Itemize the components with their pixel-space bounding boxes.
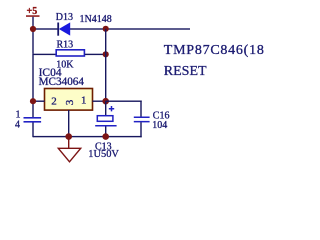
op-amp/IC U IC04 body MC34064	[45, 89, 93, 111]
capacitor C16 top plate	[134, 117, 150, 119]
junction dot pin1 (105.7,101)	[102, 98, 109, 105]
wire: diode row left segment	[33, 28, 58, 29]
capacitor C13 top plate rectangle	[97, 116, 113, 122]
junction dot ground rail / C13 (105.7,136.5)	[102, 133, 109, 140]
junction dot ground rail / pin3 (69,136.5)	[65, 133, 72, 140]
svg-text:1: 1	[16, 109, 21, 120]
wire: left cap bottom plate down to bottom rail	[32, 122, 33, 137]
junction dot at power branch (33,29)	[30, 26, 36, 32]
svg-text:4: 4	[15, 120, 20, 131]
svg-text:1: 1	[81, 95, 87, 107]
diode D13 triangle	[59, 22, 70, 35]
wire: bottom ground rail	[33, 136, 142, 137]
wire: resistor row left segment	[33, 54, 57, 55]
wire: C16 top vertical	[140, 101, 141, 118]
capacitor C13 wire into top plate	[105, 101, 106, 116]
left capacitor top plate	[24, 117, 42, 119]
wire: right vertical x=105.7 top to pin1 row	[105, 29, 106, 101]
wire: pin 2 stub	[33, 101, 45, 102]
wire: left vertical x=33 from diode row to resistor row	[32, 28, 33, 53]
ground stub	[68, 137, 69, 149]
diode D13 cathode bar	[57, 23, 59, 36]
svg-text:2: 2	[51, 96, 57, 108]
svg-text:3: 3	[64, 99, 76, 105]
resistor R13 body	[56, 50, 84, 56]
wire: C16 bottom vertical	[140, 122, 141, 137]
svg-text:RESET: RESET	[164, 64, 207, 79]
wire: power stub down	[32, 17, 33, 29]
junction dot resistor right (105.7,54)	[103, 51, 109, 57]
svg-text:1N4148: 1N4148	[80, 14, 112, 25]
power +5 bar	[26, 15, 40, 16]
svg-text:R13: R13	[57, 39, 74, 50]
wire: pin 3 stub down to ground rail	[68, 110, 69, 137]
svg-text:1U50V: 1U50V	[88, 149, 119, 160]
wire: pin 1 stub	[93, 101, 106, 102]
junction dot top wire (105.7,29)	[103, 26, 109, 32]
svg-text:D13: D13	[56, 12, 73, 23]
capacitor C16 bottom plate	[134, 121, 150, 123]
capacitor C13 bottom plate	[95, 125, 116, 127]
left capacitor bottom plate	[24, 121, 42, 123]
wire: left vertical x=33 resistor row to pin2 row	[32, 54, 33, 101]
capacitor C13 plus sign	[109, 106, 114, 111]
junction dot pin2 (33,101)	[30, 98, 36, 104]
capacitor C13 wire below	[105, 127, 106, 138]
wire: diode row right segment to x=190	[70, 28, 190, 29]
wire: left vertical x=33 pin2 row down to left cap top plate	[32, 101, 33, 117]
wire: resistor row right segment	[85, 54, 106, 55]
ground triangle	[58, 148, 80, 162]
svg-text:MC34064: MC34064	[39, 76, 85, 88]
svg-text:TMP87C846(18: TMP87C846(18	[164, 43, 265, 58]
svg-text:104: 104	[152, 120, 167, 131]
wire: pin1 row to C16 horizontal	[106, 101, 142, 102]
